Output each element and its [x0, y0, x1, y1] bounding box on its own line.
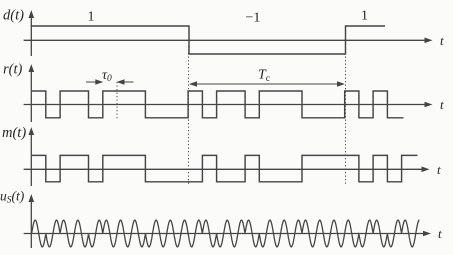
- dotted bit boundary right: [345, 46, 347, 184]
- tau0 measure arrows: [86, 79, 134, 85]
- svg-text:t: t: [440, 97, 444, 112]
- svg-text:−1: −1: [246, 11, 261, 26]
- svg-text:t: t: [438, 226, 442, 241]
- dotted bit boundary left: [188, 46, 190, 185]
- svg-text:r(t): r(t): [3, 62, 23, 78]
- svg-text:m(t): m(t): [2, 125, 26, 141]
- svg-text:1: 1: [361, 9, 368, 24]
- svg-text:1: 1: [88, 10, 95, 25]
- d(t) axis horizontal t-axis: [24, 38, 433, 44]
- svg-text:t: t: [440, 33, 444, 48]
- uS(t) BPSK carrier waveform: [32, 220, 420, 247]
- m(t) axis vertical axis: [29, 127, 35, 186]
- svg-text:d(t): d(t): [3, 8, 24, 24]
- svg-text:uS(t): uS(t): [0, 189, 25, 206]
- d(t) data waveform: [31, 26, 385, 54]
- uS(t) axis vertical axis: [29, 194, 35, 248]
- Tc double arrow: [189, 81, 345, 87]
- r(t) axis vertical axis: [29, 64, 35, 122]
- m(t) product waveform: [32, 155, 418, 181]
- m(t) axis horizontal t-axis: [24, 167, 430, 173]
- tau0 dotted boundary line: [116, 82, 118, 120]
- r(t) PN code waveform: [32, 91, 404, 118]
- r(t) axis horizontal t-axis: [24, 102, 433, 108]
- svg-text:t: t: [437, 162, 441, 177]
- d(t) axis vertical axis: [29, 10, 35, 56]
- uS(t) axis horizontal t-axis: [24, 231, 431, 237]
